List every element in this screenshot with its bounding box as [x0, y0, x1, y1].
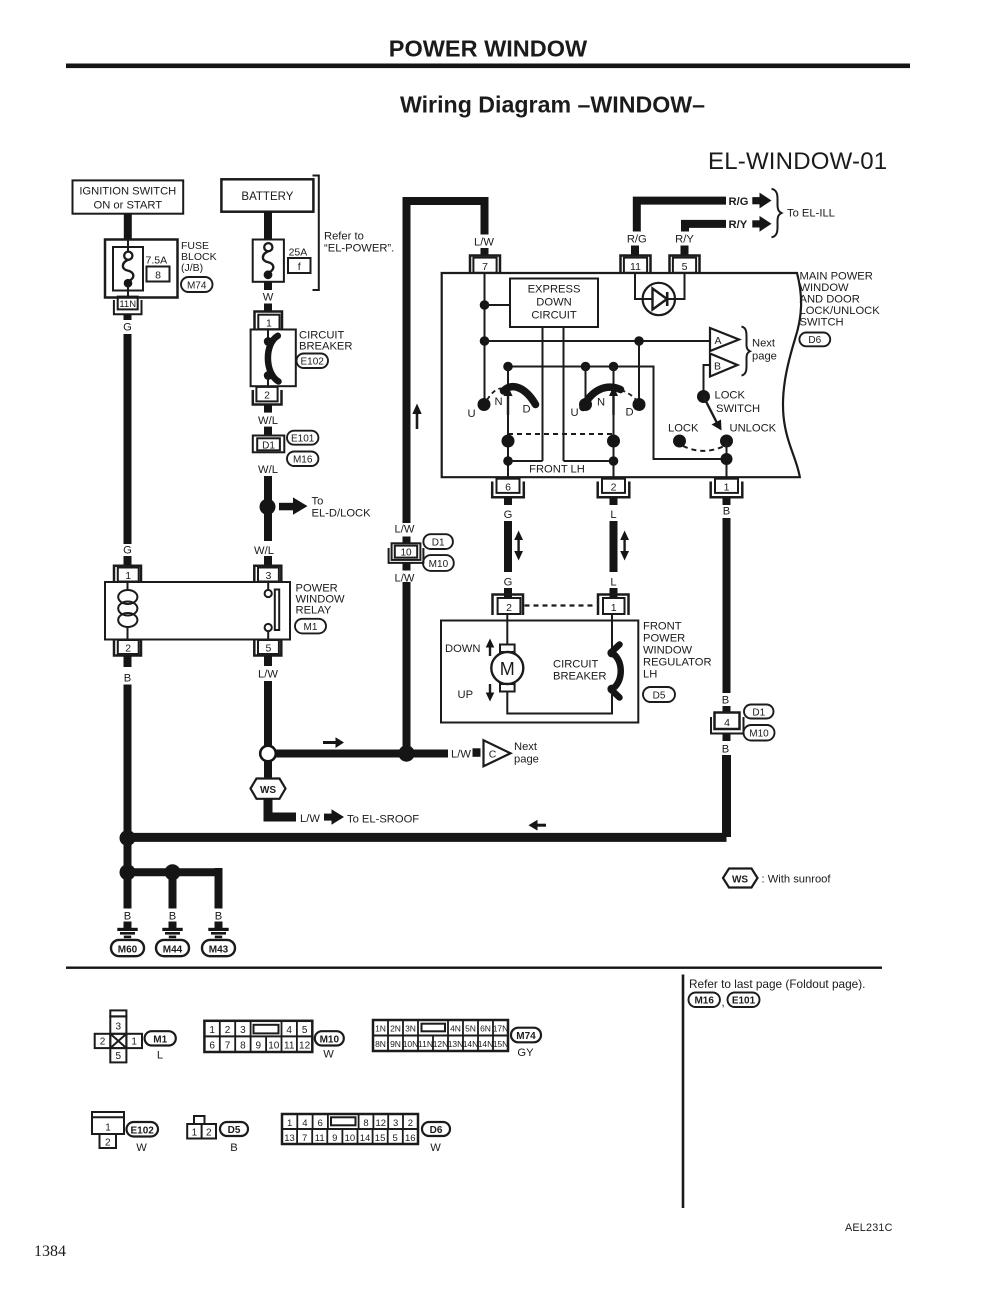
svg-text:1: 1 [105, 1123, 111, 1134]
relay contact [265, 582, 280, 640]
dashed line between regulator connectors [525, 604, 597, 606]
svg-text:D1: D1 [752, 708, 765, 719]
svg-text:D1: D1 [432, 538, 445, 549]
svg-text:2: 2 [506, 602, 512, 614]
connector M10 oval view [315, 1031, 344, 1060]
junction dot row left [503, 362, 513, 372]
wire L to regulator [610, 521, 618, 572]
svg-text:DOWN: DOWN [445, 643, 480, 655]
circuit breaker blade symbol [264, 330, 279, 387]
svg-text:1: 1 [266, 318, 272, 330]
diode triangle and bar [653, 289, 668, 310]
svg-text:L/W: L/W [451, 749, 471, 761]
label Refer to EL-POWER [324, 231, 394, 255]
svg-text:EL-WINDOW-01: EL-WINDOW-01 [708, 148, 887, 175]
svg-text:3: 3 [393, 1118, 398, 1129]
svg-text:CIRCUIT: CIRCUIT [553, 659, 599, 671]
dashed arc lock to unlock [683, 446, 723, 451]
connector D1 inline box [253, 436, 284, 453]
connector M74 oval view [511, 1028, 541, 1059]
express down circuit box [510, 279, 598, 328]
switch 2 wiper line [613, 367, 615, 479]
svg-text:SWITCH: SWITCH [716, 403, 760, 415]
svg-text:G: G [504, 509, 513, 521]
wire B left column [124, 685, 132, 873]
svg-text:EXPRESS: EXPRESS [528, 284, 581, 296]
wire drop M43 [215, 868, 223, 909]
svg-text:LH: LH [643, 669, 657, 681]
svg-text:11N: 11N [418, 1039, 433, 1049]
svg-text:W/L: W/L [254, 545, 274, 557]
svg-text:C: C [489, 749, 497, 761]
svg-text:8: 8 [155, 270, 161, 282]
svg-text:BATTERY: BATTERY [241, 191, 293, 203]
svg-text:6: 6 [505, 482, 511, 494]
svg-text:To EL-ILL: To EL-ILL [787, 208, 835, 220]
svg-text:7: 7 [482, 261, 488, 273]
connector 10 inline [389, 543, 424, 570]
label MAIN POWER WINDOW AND DOOR LOCK/UNLOCK SWITCH [800, 271, 881, 329]
svg-text:2: 2 [206, 1128, 212, 1139]
connector M60 oval [111, 940, 144, 956]
svg-text:14: 14 [360, 1133, 371, 1144]
arrow to EL-SROOF [324, 809, 344, 824]
wire B triangle to lock switch [704, 365, 711, 397]
svg-text:1: 1 [611, 602, 617, 614]
wire L/W horizontal to next page [276, 750, 448, 758]
wire L into regulator connector 1 [610, 588, 618, 598]
svg-text:IGNITION SWITCH: IGNITION SWITCH [79, 186, 176, 198]
svg-text:1: 1 [724, 482, 730, 494]
switch 1 up arrow [504, 386, 513, 415]
svg-text:12: 12 [376, 1118, 387, 1129]
svg-text:LOCK: LOCK [715, 390, 746, 402]
ignition switch box [73, 180, 184, 213]
svg-text:N: N [597, 397, 605, 409]
svg-text:W/L: W/L [258, 464, 278, 476]
svg-text:W: W [263, 292, 274, 304]
svg-text:L: L [610, 509, 616, 521]
svg-text:D: D [625, 407, 633, 419]
svg-text:B: B [124, 673, 131, 685]
circuit breaker E102 box [251, 330, 296, 387]
junction dot A-line start [480, 336, 490, 346]
wire B right column [723, 518, 731, 693]
svg-text:1: 1 [209, 1025, 215, 1036]
brace to EL-ILL [772, 189, 782, 238]
ground symbol M60 [117, 922, 137, 939]
wire W/L to D1 [264, 427, 272, 435]
relay connector pin 3 [254, 566, 281, 582]
svg-text:L/W: L/W [258, 669, 278, 681]
svg-text:4N: 4N [450, 1024, 461, 1034]
arrow R/Y to EL-ILL [752, 216, 771, 232]
updown arrow L [620, 531, 629, 561]
svg-text:WS: WS [260, 785, 276, 796]
label FRONT POWER WINDOW REGULATOR LH [643, 621, 712, 681]
refer-to bracket [313, 176, 319, 291]
svg-text:U: U [570, 407, 578, 419]
connector M1 oval [295, 619, 326, 634]
connector E101 oval legend [728, 993, 760, 1008]
wire stub into connector 5 [681, 246, 689, 257]
wire express left join [508, 460, 543, 462]
connector D6 oval [799, 333, 830, 347]
svg-text:E102: E102 [131, 1126, 155, 1137]
svg-text:1: 1 [287, 1118, 292, 1129]
regulator box D5 [441, 621, 638, 723]
svg-text:M16: M16 [293, 455, 313, 466]
junction dot express feed [480, 300, 490, 310]
switch 1 thick arc [504, 387, 536, 405]
svg-text:15N: 15N [493, 1039, 509, 1049]
svg-text:6: 6 [209, 1040, 215, 1051]
svg-text:11: 11 [630, 261, 641, 273]
svg-text:U: U [467, 408, 475, 420]
svg-text:D6: D6 [430, 1125, 443, 1136]
svg-text:1: 1 [131, 1037, 137, 1048]
direction arrow left on B line [529, 820, 547, 831]
label LOCK SWITCH [715, 390, 761, 416]
svg-text:E102: E102 [301, 357, 325, 368]
triangle A next page [710, 328, 739, 351]
triangle connector C next page [484, 740, 511, 766]
symbol WS hexagon [251, 779, 286, 799]
svg-text:2: 2 [105, 1138, 111, 1149]
connector D1 oval right [744, 705, 774, 719]
connector view D6 grid [282, 1114, 418, 1144]
svg-text:11: 11 [284, 1040, 295, 1051]
wire L/W from relay pin 5 [264, 656, 272, 667]
svg-text:AEL231C: AEL231C [845, 1222, 893, 1234]
svg-text:R/Y: R/Y [729, 219, 748, 231]
svg-text:11: 11 [315, 1133, 325, 1144]
switch 2 D line [638, 341, 640, 405]
svg-text:Next: Next [514, 741, 538, 753]
svg-text:3: 3 [116, 1022, 122, 1033]
connector 11N [114, 297, 142, 320]
arrow R/G to EL-ILL [752, 193, 771, 209]
square terminal next page C [473, 748, 481, 757]
connector E101 oval [287, 431, 318, 445]
title rule [66, 64, 910, 69]
svg-text:SWITCH: SWITCH [800, 317, 844, 329]
fuse block outer box M74 [105, 240, 178, 298]
svg-text:2N: 2N [390, 1024, 401, 1034]
switch 2 thick arc [583, 387, 621, 407]
svg-text:WINDOW: WINDOW [643, 645, 693, 657]
svg-text:5N: 5N [465, 1024, 476, 1034]
svg-text:RELAY: RELAY [296, 605, 332, 617]
wire B to bottom corner [722, 755, 731, 837]
junction dot unlock feed [721, 453, 733, 465]
wire W to breaker connector [264, 304, 272, 312]
wire unlock down to connector 1 [726, 441, 728, 478]
svg-text:3: 3 [240, 1025, 246, 1036]
junction dot B horizontal [120, 830, 136, 846]
wire express outputs down [542, 327, 544, 461]
up arrow beside trunk [412, 404, 421, 430]
fuse letter f box [288, 258, 311, 273]
svg-text:Next: Next [752, 338, 776, 350]
diode circuit wires [635, 273, 685, 299]
svg-text:POWER: POWER [643, 633, 685, 645]
wire stub into connector 10 [403, 537, 411, 545]
symbol WS legend [723, 869, 758, 888]
wire row to lock switch feed [508, 367, 727, 460]
svg-text:10: 10 [345, 1133, 356, 1144]
svg-text:D1: D1 [262, 441, 275, 452]
svg-text:L/W: L/W [474, 237, 494, 249]
brace next page [742, 327, 751, 376]
svg-text:E101: E101 [291, 434, 315, 445]
fuse 25A symbol [253, 240, 284, 282]
svg-text:To EL-SROOF: To EL-SROOF [347, 814, 419, 826]
wire WS elbow to EL-SROOF [268, 799, 296, 817]
svg-text:G: G [123, 322, 132, 334]
svg-text:11N: 11N [119, 299, 136, 310]
wire stub into connector 7 [481, 248, 489, 256]
wire R/Y top with corner [685, 224, 726, 232]
svg-text:MAIN POWER: MAIN POWER [800, 271, 873, 283]
svg-text:B: B [714, 361, 721, 373]
svg-text:6: 6 [318, 1118, 323, 1129]
relay box M1 [105, 582, 290, 640]
svg-text:14N: 14N [478, 1039, 494, 1049]
wire battery to fuse [264, 212, 272, 240]
svg-text:Wiring Diagram –WINDOW–: Wiring Diagram –WINDOW– [400, 92, 705, 118]
switch 1 dashed arc [487, 388, 504, 400]
breaker blade symbol regulator [607, 645, 620, 698]
direction arrow right on L/W line [323, 737, 344, 748]
svg-text:W: W [323, 1049, 334, 1061]
svg-text:Refer to last page (Foldout pa: Refer to last page (Foldout page). [689, 977, 865, 991]
arrow to EL-D/LOCK [279, 497, 308, 514]
svg-text:DOWN: DOWN [536, 297, 571, 309]
svg-text:9N: 9N [390, 1039, 401, 1049]
switch 2 D contact [633, 398, 646, 411]
junction dot switch1 lower [502, 435, 515, 448]
wire drop M44 [169, 872, 177, 908]
junction dot switch2 express join [609, 456, 619, 466]
svg-text:9: 9 [332, 1133, 337, 1144]
svg-text:M10: M10 [749, 729, 769, 740]
svg-text:7: 7 [225, 1040, 231, 1051]
svg-text:25A: 25A [289, 247, 308, 259]
svg-text:R/G: R/G [729, 196, 749, 208]
label CIRCUIT BREAKER regulator [553, 659, 606, 683]
label DOWN with arrow [445, 639, 494, 657]
svg-text:2: 2 [225, 1025, 231, 1036]
svg-text:UNLOCK: UNLOCK [730, 423, 777, 435]
wire R/G top with corner [637, 201, 726, 232]
svg-text:: With sunroof: : With sunroof [762, 874, 832, 886]
svg-text:f: f [298, 261, 301, 273]
bottom section divider vertical [682, 975, 685, 1209]
connector 11 [621, 256, 651, 274]
connector M10 oval right [744, 725, 775, 741]
connector D6 oval view [422, 1122, 450, 1154]
svg-text:W: W [430, 1142, 441, 1154]
svg-text:BREAKER: BREAKER [553, 671, 606, 683]
wire G into regulator connector 2 [504, 588, 512, 598]
svg-text:2: 2 [264, 390, 270, 402]
diode leads inside circle [643, 298, 675, 300]
svg-text:8: 8 [240, 1040, 246, 1051]
svg-text:B: B [722, 695, 729, 707]
svg-text:G: G [504, 577, 513, 589]
svg-text:E101: E101 [732, 996, 756, 1007]
svg-text:8N: 8N [375, 1039, 386, 1049]
svg-text:5: 5 [265, 643, 271, 655]
svg-text:13: 13 [284, 1133, 295, 1144]
svg-text:FRONT LH: FRONT LH [529, 464, 585, 476]
wire express right join [564, 460, 614, 462]
motor M [491, 645, 523, 692]
svg-text:AND DOOR: AND DOOR [800, 294, 860, 306]
junction dot switch2 lower [607, 435, 620, 448]
svg-text:M44: M44 [163, 945, 183, 956]
wire connector 1 to breaker [611, 614, 613, 652]
wire W/L to junction [264, 476, 272, 500]
svg-text:D: D [522, 404, 530, 416]
connector M44 oval [156, 940, 189, 956]
fuse number 8 box [147, 267, 170, 282]
label Next page [514, 741, 539, 766]
svg-text:M16: M16 [694, 996, 714, 1007]
connector 1 [711, 479, 743, 505]
svg-text:7: 7 [302, 1133, 307, 1144]
svg-text:REGULATOR: REGULATOR [643, 657, 712, 669]
bottom section rule [66, 967, 882, 969]
wire W/L junction to relay [264, 513, 272, 541]
lock switch pivot dot [697, 390, 710, 403]
connector view D5 [187, 1116, 216, 1139]
connector D5 oval view [220, 1122, 248, 1154]
connector E102 oval [297, 354, 329, 369]
svg-text:W: W [136, 1142, 147, 1154]
svg-text:M74: M74 [187, 281, 207, 292]
svg-text:L/W: L/W [395, 573, 415, 585]
svg-text:ON or START: ON or START [94, 200, 163, 212]
junction dot M44 branch [165, 864, 181, 880]
switch 1 U contact [478, 398, 491, 411]
junction dot A-line to D contact [634, 336, 644, 346]
svg-text:D5: D5 [653, 691, 666, 702]
switch 1 wiper line [507, 367, 509, 479]
svg-text:WINDOW: WINDOW [800, 282, 850, 294]
svg-text:B: B [723, 506, 730, 518]
junction dot EL-D/LOCK [260, 499, 276, 515]
relay coil [118, 582, 137, 640]
svg-text:CIRCUIT: CIRCUIT [531, 310, 577, 322]
connector M43 oval [202, 940, 235, 956]
svg-text:L: L [157, 1050, 163, 1062]
connector view M1 cross [95, 1010, 142, 1062]
svg-text:LOCK/UNLOCK: LOCK/UNLOCK [800, 305, 881, 317]
wire drop M60 [124, 872, 132, 908]
svg-text:B: B [230, 1142, 237, 1154]
label UP with arrow [458, 684, 495, 702]
connector view M74 grid [373, 1020, 508, 1051]
svg-text:5: 5 [302, 1025, 308, 1036]
svg-text:(J/B): (J/B) [181, 262, 203, 274]
svg-text:15: 15 [375, 1133, 386, 1144]
connector view E102 [92, 1112, 124, 1149]
svg-text:page: page [752, 351, 777, 363]
relay connector pin 1 [114, 566, 141, 582]
svg-text:M10: M10 [320, 1035, 340, 1046]
wire to express down circuit [485, 304, 511, 306]
svg-text:G: G [123, 545, 132, 557]
wire from connector 7 down [484, 273, 486, 405]
connector M1 oval view [145, 1031, 176, 1061]
switch 2 dashed arc [621, 390, 637, 401]
svg-text:To: To [312, 496, 324, 508]
wire B from relay pin 2 [124, 656, 132, 668]
connector M16 oval [287, 452, 318, 467]
label CIRCUIT BREAKER [299, 330, 352, 353]
svg-text:10N: 10N [403, 1039, 419, 1049]
unlock contact dot [720, 435, 733, 448]
svg-text:BREAKER: BREAKER [299, 341, 352, 353]
svg-text:,: , [722, 997, 725, 1009]
svg-text:B: B [169, 911, 176, 923]
svg-text:1: 1 [192, 1128, 198, 1139]
relay connector pin 2 [114, 640, 141, 656]
wire L/W trunk upper segment [403, 201, 411, 523]
lock contact dot [673, 435, 686, 448]
svg-text:POWER WINDOW: POWER WINDOW [389, 36, 588, 62]
connector 5 [670, 256, 700, 274]
svg-text:“EL-POWER”.: “EL-POWER”. [324, 243, 394, 255]
lock switch arm arrow [704, 397, 722, 431]
wire motor breaker bottom loop [507, 692, 612, 714]
connector 2 circuit breaker bottom [253, 387, 282, 413]
wire W/L into relay pin 3 [264, 556, 272, 566]
wire connector 2 to motor [506, 614, 508, 649]
svg-text:1384: 1384 [34, 1243, 66, 1260]
svg-text:B: B [215, 911, 222, 923]
junction dot L/W trunk [398, 745, 414, 761]
svg-text:1N: 1N [375, 1024, 386, 1034]
svg-text:L/W: L/W [395, 524, 415, 536]
connector 7 [470, 256, 500, 274]
svg-text:14N: 14N [463, 1039, 479, 1049]
svg-text:8: 8 [363, 1118, 368, 1129]
svg-text:12: 12 [299, 1040, 311, 1051]
svg-text:17N: 17N [493, 1024, 509, 1034]
triangle B next page [710, 354, 738, 377]
svg-text:R/Y: R/Y [675, 234, 694, 246]
wire fuse to W [264, 282, 272, 290]
svg-text:UP: UP [458, 689, 474, 701]
svg-text:4: 4 [286, 1025, 292, 1036]
connector M10 oval [423, 555, 454, 571]
svg-text:M10: M10 [429, 559, 449, 570]
wire stub into connector 11 [631, 246, 639, 257]
switch 2 up arrow [609, 386, 618, 415]
svg-text:R/G: R/G [627, 234, 647, 246]
svg-text:2: 2 [408, 1118, 413, 1129]
svg-text:B: B [124, 911, 131, 923]
dashed link line between switches [508, 433, 614, 435]
svg-text:2: 2 [125, 643, 131, 655]
svg-text:M43: M43 [209, 945, 229, 956]
junction dot switch1 express join [503, 456, 513, 466]
fuse 7.5A symbol [113, 240, 143, 298]
svg-text:N: N [494, 396, 502, 408]
